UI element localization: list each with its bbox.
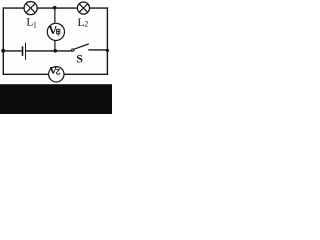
junction node middle — [53, 49, 57, 53]
wire top middle segment — [37, 7, 78, 9]
wire bottom-right segment — [64, 73, 108, 75]
voltmeter V甲 (U1) — [47, 23, 64, 40]
wire stub voltmeter bottom — [54, 41, 56, 51]
wire top-right segment — [89, 7, 108, 9]
black band — [0, 84, 112, 114]
subscript 甲 glyph — [57, 29, 60, 36]
subscript 乙 glyph — [56, 69, 60, 74]
wire bottom-left segment — [3, 73, 49, 75]
lamp L2 — [77, 2, 89, 14]
wire top-left segment — [3, 7, 24, 9]
junction node left — [1, 49, 5, 53]
junction node right — [106, 49, 109, 52]
battery B1 — [23, 43, 26, 60]
svg-text:S: S — [76, 52, 83, 66]
label L2 — [78, 17, 89, 29]
svg-text:1: 1 — [33, 21, 37, 30]
background — [0, 0, 112, 114]
wire right vertical — [106, 7, 108, 75]
switch S — [72, 44, 89, 51]
wire middle-left segment — [3, 50, 22, 52]
voltmeter V乙 (U2) — [49, 67, 64, 82]
junction node top — [53, 6, 57, 10]
lamp L1 — [24, 2, 37, 15]
svg-text:2: 2 — [84, 20, 88, 29]
wire stub voltmeter top — [54, 8, 56, 24]
wire left vertical — [2, 7, 4, 75]
wire middle-center segment — [26, 50, 72, 52]
wire middle-right segment — [88, 49, 107, 51]
label L1 — [26, 17, 37, 30]
